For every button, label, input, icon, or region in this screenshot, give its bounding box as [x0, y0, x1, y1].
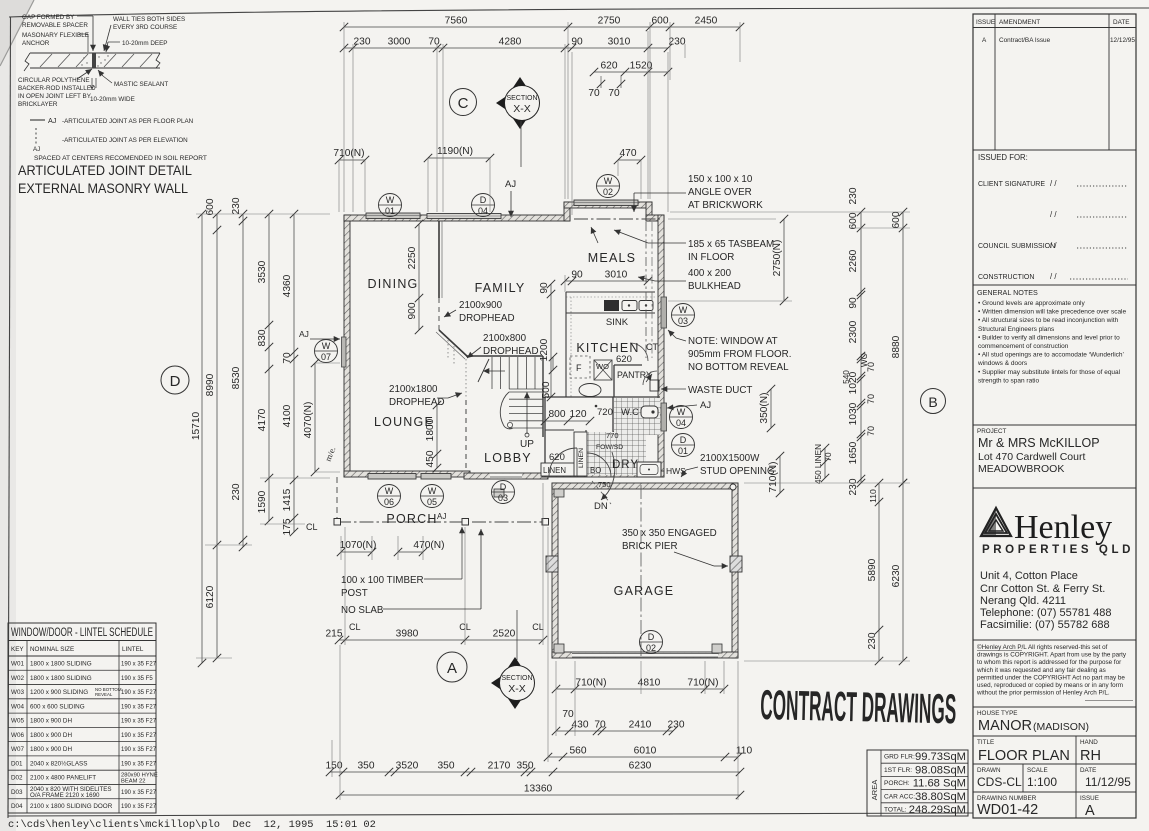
svg-text:3010: 3010 — [605, 270, 628, 281]
svg-text:12/12/95: 12/12/95 — [1110, 37, 1135, 44]
window W01 — [366, 213, 420, 219]
svg-text:2100 x 4800 PANELIFT: 2100 x 4800 PANELIFT — [30, 775, 96, 782]
id circle W01 — [379, 194, 402, 217]
svg-text:/ /: / / — [1050, 210, 1057, 219]
svg-text:1800: 1800 — [425, 418, 436, 441]
lobby entry door arc — [549, 448, 577, 476]
svg-text:05: 05 — [427, 497, 437, 507]
svg-text:DROPHEAD: DROPHEAD — [483, 346, 539, 357]
svg-text:POST: POST — [341, 588, 368, 599]
svg-text:2410: 2410 — [629, 720, 652, 731]
svg-text:3520: 3520 — [396, 761, 419, 772]
fridge F — [570, 356, 590, 378]
AJ marker left — [299, 329, 340, 342]
exterior wall bottom (lounge/lobby/laundry) — [344, 471, 664, 479]
note no slab — [341, 529, 484, 616]
svg-text:120: 120 — [570, 409, 587, 420]
exterior wall top — [344, 215, 570, 221]
svg-text:LOBBY: LOBBY — [484, 451, 532, 465]
svg-text:MASONARY FLEXIBLE: MASONARY FLEXIBLE — [22, 32, 89, 39]
svg-text:HOUSE TYPE: HOUSE TYPE — [977, 710, 1017, 717]
dim chain right 2750(N) — [772, 215, 788, 305]
top extension lines — [344, 22, 740, 215]
room label GARAGE — [614, 584, 675, 598]
svg-text:2100x800: 2100x800 — [483, 333, 527, 344]
svg-text:/ /: / / — [1050, 241, 1057, 250]
svg-text:IN FLOOR: IN FLOOR — [688, 252, 734, 263]
project section — [973, 425, 1136, 475]
svg-text:07: 07 — [321, 352, 331, 362]
svg-text:W07: W07 — [11, 746, 24, 753]
room label DINING — [368, 277, 419, 291]
svg-text:70: 70 — [588, 88, 600, 99]
svg-text:175: 175 — [282, 518, 293, 535]
exterior wall left — [344, 215, 350, 477]
svg-text:2260: 2260 — [848, 249, 859, 272]
kitchen/wc walls — [545, 397, 660, 477]
grid circle A — [437, 652, 467, 682]
svg-text:600: 600 — [205, 198, 216, 215]
svg-text:450: 450 — [425, 450, 436, 467]
svg-text:(MADISON): (MADISON) — [1033, 721, 1089, 733]
svg-text:750: 750 — [598, 480, 611, 489]
svg-text:2450: 2450 — [695, 16, 718, 27]
svg-text:used, reproduced or copied: used, reproduced or copied by means or i… — [977, 682, 1123, 689]
svg-text:720: 720 — [597, 407, 613, 418]
svg-text:commencement of construction: commencement of construction — [978, 343, 1069, 350]
svg-text:4280: 4280 — [499, 37, 522, 48]
henley logo — [973, 488, 1136, 556]
svg-text:6010: 6010 — [634, 746, 657, 757]
svg-text:98.08SqM: 98.08SqM — [915, 764, 966, 776]
room label LOUNGE — [374, 415, 434, 429]
svg-text:DRAWING NUMBER: DRAWING NUMBER — [977, 795, 1037, 802]
label W.C — [597, 407, 639, 418]
svg-text:A: A — [1085, 803, 1095, 819]
window W07 — [342, 337, 347, 367]
svg-text:2040 x 820½GLASS: 2040 x 820½GLASS — [30, 759, 87, 767]
svg-text:03: 03 — [498, 493, 508, 503]
svg-text:HAND: HAND — [1080, 739, 1098, 746]
svg-text:230: 230 — [668, 720, 685, 731]
note timber post — [341, 527, 465, 599]
svg-text:DROPHEAD: DROPHEAD — [459, 313, 515, 324]
svg-text:LINEN: LINEN — [578, 448, 585, 468]
svg-text:90: 90 — [848, 297, 859, 309]
svg-text:900: 900 — [407, 302, 418, 319]
svg-text:W: W — [677, 407, 686, 417]
kitchen bench — [566, 292, 655, 397]
svg-text:10-20mm DEEP: 10-20mm DEEP — [122, 40, 168, 47]
svg-text:Mr & MRS McKILLOP: Mr & MRS McKILLOP — [978, 436, 1100, 450]
dim 470 top-centre — [614, 148, 645, 199]
svg-text:190 x 35 F27: 190 x 35 F27 — [121, 690, 157, 696]
svg-text:Unit 4, Cotton Place: Unit 4, Cotton Place — [980, 570, 1078, 582]
id circle D04 — [472, 194, 495, 217]
svg-text:MASTIC SEALANT: MASTIC SEALANT — [114, 81, 168, 88]
svg-text:BRICKLAYER: BRICKLAYER — [18, 101, 58, 108]
vanity basin — [579, 384, 601, 408]
meals bay dash-dot line — [574, 218, 660, 220]
svg-text:02: 02 — [646, 643, 656, 653]
svg-text:IN OPEN JOINT LEFT BY: IN OPEN JOINT LEFT BY — [18, 93, 92, 100]
svg-text:190 x 35 F27: 190 x 35 F27 — [121, 662, 157, 668]
svg-text:70: 70 — [282, 352, 293, 364]
dim chain top row2 230/3000/70/4280/90/3010/230 — [340, 37, 686, 53]
svg-text:230: 230 — [231, 197, 242, 214]
svg-text:AJ: AJ — [299, 329, 309, 339]
svg-text:770: 770 — [606, 431, 619, 440]
window W02 — [574, 200, 638, 206]
svg-text:KEY: KEY — [11, 646, 24, 653]
svg-text:FOW/SD: FOW/SD — [596, 444, 623, 451]
svg-text:D: D — [500, 482, 507, 492]
svg-text:• Written dimension will take: • Written dimension will take precedence… — [978, 309, 1126, 316]
svg-text:90: 90 — [571, 37, 583, 48]
svg-text:AMENDMENT: AMENDMENT — [999, 19, 1040, 26]
note drophead 2100x900 — [444, 300, 515, 324]
id circle W05 — [421, 485, 444, 508]
svg-text:AJ: AJ — [437, 512, 446, 521]
svg-text:1800 x 1800 SLIDING: 1800 x 1800 SLIDING — [30, 675, 92, 682]
staircase — [478, 357, 543, 450]
svg-text:permitted under the COPYRIG: permitted under the COPYRIGHT Act no par… — [977, 674, 1125, 681]
svg-text:Nerang Qld. 4211: Nerang Qld. 4211 — [980, 595, 1066, 607]
svg-text:1070(N): 1070(N) — [340, 540, 377, 551]
dim chain left 230/8530/230 — [231, 197, 247, 551]
svg-text:W: W — [322, 341, 331, 351]
svg-text:Lot 470 Cardwell Court: Lot 470 Cardwell Court — [978, 451, 1085, 463]
svg-text:8530: 8530 — [231, 366, 242, 389]
svg-text:230: 230 — [354, 37, 371, 48]
svg-text:2100 x 1800 SLIDING DOOR: 2100 x 1800 SLIDING DOOR — [30, 803, 113, 810]
svg-text:600: 600 — [848, 212, 859, 229]
svg-text:4070(N): 4070(N) — [303, 402, 314, 439]
interior wall dining/family — [439, 221, 442, 332]
svg-text:W01: W01 — [11, 661, 24, 668]
svg-text:GENERAL NOTES: GENERAL NOTES — [977, 288, 1038, 297]
svg-text:6230: 6230 — [891, 564, 902, 587]
bulkhead dashed outline — [646, 222, 652, 358]
svg-text:DRAWN: DRAWN — [977, 767, 1001, 774]
svg-text:70: 70 — [866, 394, 876, 404]
left extension lines — [196, 214, 340, 658]
svg-text:PORCH: PORCH — [386, 512, 437, 526]
svg-text:DROPHEAD: DROPHEAD — [389, 397, 445, 408]
dim chain left 4360/70/4100/1415/175 — [282, 210, 298, 536]
svg-text:CONSTRUCTION: CONSTRUCTION — [978, 274, 1034, 281]
svg-text:EXTERNAL MASONRY WALL: EXTERNAL MASONRY WALL — [18, 181, 188, 196]
svg-text:01: 01 — [385, 206, 395, 216]
svg-text:600: 600 — [652, 16, 669, 27]
svg-text:190 x 35 F27: 190 x 35 F27 — [121, 704, 157, 710]
svg-text:DRY: DRY — [612, 459, 639, 471]
general notes section — [973, 285, 1136, 384]
svg-text:ARTICULATED JOINT DETAIL: ARTICULATED JOINT DETAIL — [18, 163, 192, 178]
svg-text:190 x 35 F27: 190 x 35 F27 — [121, 804, 157, 810]
dim chain bottom 215/3980/2520 — [326, 483, 548, 645]
svg-text:O/A FRAME 2120 x 1690: O/A FRAME 2120 x 1690 — [30, 792, 100, 799]
svg-text:5890: 5890 — [867, 558, 878, 581]
svg-text:W06: W06 — [11, 732, 24, 739]
svg-text:Structural Engineers plans: Structural Engineers plans — [978, 326, 1055, 333]
linen cupboard — [541, 431, 623, 489]
svg-text:Telephone: (07) 55781 488: Telephone: (07) 55781 488 — [980, 607, 1112, 619]
svg-text:350: 350 — [358, 761, 375, 772]
svg-text:620: 620 — [549, 452, 565, 463]
id circle W06 — [378, 485, 401, 508]
svg-text:1800 x 1800 SLIDING: 1800 x 1800 SLIDING — [30, 661, 92, 668]
grid circle D — [161, 366, 189, 394]
dim chain right 450 LINEN 70 — [814, 444, 833, 484]
svg-text:620: 620 — [601, 61, 618, 72]
sheet left border — [8, 17, 11, 818]
porch boundary dash-dot — [337, 477, 548, 522]
issue/amendment table — [973, 14, 1136, 150]
WO appliance — [594, 360, 612, 380]
svg-text:WO: WO — [596, 362, 609, 371]
svg-text:D03: D03 — [11, 789, 23, 796]
svg-text:230: 230 — [867, 632, 878, 649]
svg-text:ISSUE: ISSUE — [976, 19, 995, 26]
svg-text:15710: 15710 — [191, 412, 202, 441]
AJ marker right — [667, 400, 711, 411]
svg-text:03: 03 — [678, 316, 688, 326]
svg-text:230: 230 — [848, 187, 859, 204]
lounge dotted corner — [448, 340, 466, 398]
dim chain left 15710 — [191, 210, 206, 667]
svg-text:without the prior permissio: without the prior permission of Henley A… — [976, 690, 1110, 697]
AJ marker porch — [437, 512, 446, 521]
svg-text:CONTRACT DRAWINGS: CONTRACT DRAWINGS — [760, 681, 957, 732]
svg-text:10-20mm WIDE: 10-20mm WIDE — [90, 96, 135, 103]
sliding door D04 — [427, 214, 501, 219]
svg-text:FAMILY: FAMILY — [475, 281, 526, 295]
svg-text:38.80SqM: 38.80SqM — [915, 791, 966, 803]
label DRY — [612, 459, 639, 471]
svg-text:LINTEL: LINTEL — [122, 646, 144, 653]
svg-text:B: B — [928, 394, 937, 410]
svg-text:-ARTICULATED JOINT AS PER ELEV: -ARTICULATED JOINT AS PER ELEVATION — [62, 137, 188, 144]
svg-text:to whom this report is ad: to whom this report is addressed for the… — [977, 659, 1121, 666]
dim chain garage right 6230 — [891, 479, 907, 665]
svg-text:AJ: AJ — [33, 146, 40, 153]
svg-text:strength to span ratio: strength to span ratio — [978, 377, 1039, 384]
svg-text:DATE: DATE — [1080, 767, 1096, 774]
svg-text:70: 70 — [562, 709, 574, 720]
pantry room — [614, 354, 657, 397]
svg-text:100 x 100 TIMBER: 100 x 100 TIMBER — [341, 575, 424, 586]
lounge/lobby dashed wall — [465, 400, 467, 471]
svg-text:450 LINEN: 450 LINEN — [814, 444, 823, 484]
svg-text:D02: D02 — [11, 775, 23, 782]
svg-text:350 x 350 ENGAGED: 350 x 350 ENGAGED — [622, 528, 717, 539]
svg-text:04: 04 — [478, 206, 488, 216]
svg-text:ANGLE OVER: ANGLE OVER — [688, 187, 752, 198]
svg-text:185 x 65 TASBEAM: 185 x 65 TASBEAM — [688, 239, 774, 250]
svg-text:MANOR: MANOR — [978, 718, 1032, 734]
svg-text:1415: 1415 — [282, 488, 293, 511]
svg-text:2750: 2750 — [598, 16, 621, 27]
svg-text:02: 02 — [603, 187, 613, 197]
dim porch 1070(N)/470(N) — [337, 536, 445, 560]
meals bay walls — [564, 202, 664, 221]
note angle over brickwork — [631, 174, 763, 212]
svg-text:FLOOR PLAN: FLOOR PLAN — [978, 748, 1070, 764]
svg-text:1030: 1030 — [848, 402, 859, 425]
room label PORCH — [386, 512, 437, 526]
dim chain garage bottom 560/6010/110 — [544, 746, 753, 762]
svg-text:MEADOWBROOK: MEADOWBROOK — [978, 463, 1064, 475]
dim chain left 4070(N) — [303, 359, 319, 532]
dim 710(N) top-left — [333, 148, 369, 212]
dim chain garage bottom 430/70/2410/230 — [552, 720, 685, 736]
svg-text:1800 x 900 DH: 1800 x 900 DH — [30, 718, 72, 725]
svg-text:1200: 1200 — [539, 338, 550, 361]
garage door D02 opening — [572, 653, 718, 658]
svg-text:-ARTICULATED JOINT AS PER FLOO: -ARTICULATED JOINT AS PER FLOOR PLAN — [62, 118, 194, 125]
svg-text:350: 350 — [517, 761, 534, 772]
svg-text:D01: D01 — [11, 760, 23, 767]
svg-text:190 x 35 F27: 190 x 35 F27 — [121, 733, 157, 739]
id circle D02 — [640, 631, 663, 654]
svg-text:TOTAL:: TOTAL: — [884, 807, 907, 814]
svg-text:3980: 3980 — [396, 629, 419, 640]
svg-text:600: 600 — [891, 211, 902, 228]
dim stair 800/120 — [541, 409, 594, 425]
note window 905mm — [668, 330, 791, 373]
svg-text:150 x 100 x 10: 150 x 100 x 10 — [688, 174, 753, 185]
svg-text:2100x1800: 2100x1800 — [389, 384, 438, 395]
svg-text:620: 620 — [616, 354, 632, 365]
svg-text:PROPERTIES QLD: PROPERTIES QLD — [982, 544, 1134, 556]
svg-text:drawings is COPYRIGHT. Apart f: drawings is COPYRIGHT. Apart from use by… — [977, 652, 1127, 659]
svg-text:13360: 13360 — [524, 784, 553, 795]
drawn/scale/date cells — [973, 764, 1136, 792]
svg-text:190 x 35 F27: 190 x 35 F27 — [121, 790, 157, 796]
dim dining 2250/900 — [407, 220, 423, 334]
svg-text:350: 350 — [438, 761, 455, 772]
svg-text:NOTE: WINDOW AT: NOTE: WINDOW AT — [688, 336, 778, 347]
exterior wall right — [658, 215, 664, 477]
svg-text:470: 470 — [620, 148, 637, 159]
svg-text:500: 500 — [541, 381, 552, 398]
svg-text:GRD FLR:: GRD FLR: — [884, 754, 915, 761]
note stud opening — [681, 453, 775, 477]
svg-text:4360: 4360 — [282, 274, 293, 297]
svg-text:C: C — [458, 95, 469, 112]
svg-text:600 x 600 SLIDING: 600 x 600 SLIDING — [30, 703, 85, 710]
svg-text:Henley: Henley — [1014, 509, 1112, 546]
svg-text:1800 x 900 DH: 1800 x 900 DH — [30, 732, 72, 739]
svg-text:830: 830 — [257, 329, 268, 346]
svg-text:AJ: AJ — [505, 179, 516, 190]
svg-text:D: D — [170, 373, 181, 390]
svg-text:TITLE: TITLE — [977, 739, 994, 746]
svg-text:110: 110 — [868, 489, 878, 503]
svg-text:11.68 SqM: 11.68 SqM — [913, 778, 966, 790]
svg-text:• Builder to verify all dimens: • Builder to verify all dimensions and l… — [978, 334, 1120, 341]
room label MEALS — [588, 251, 636, 265]
dim chain left 3530/830/4170/1590 — [257, 210, 273, 525]
svg-text:800: 800 — [549, 409, 566, 420]
svg-text:BRICK PIER: BRICK PIER — [622, 541, 678, 552]
svg-text:SINK: SINK — [606, 317, 629, 328]
svg-text:70: 70 — [594, 720, 606, 731]
svg-text:W: W — [385, 486, 394, 496]
svg-text:X-X: X-X — [508, 683, 526, 695]
dim stair 500 — [541, 353, 557, 399]
garage engaged piers — [494, 484, 742, 653]
svg-text:ANCHOR: ANCHOR — [22, 40, 50, 47]
svg-text:190 x 35 F27: 190 x 35 F27 — [121, 719, 157, 725]
svg-text:AJ: AJ — [700, 400, 711, 411]
svg-text:REVEAL: REVEAL — [95, 692, 113, 697]
dim chain right 710(N) — [768, 452, 784, 497]
bottom extension lines — [332, 527, 738, 800]
entry door D03 opening — [490, 474, 522, 479]
svg-text:190 x 35 F27: 190 x 35 F27 — [121, 747, 157, 753]
svg-text:COUNCIL SUBMISSION: COUNCIL SUBMISSION — [978, 243, 1055, 250]
svg-text:windows & doors: windows & doors — [977, 360, 1028, 367]
dim kitchen 3010/90 — [561, 270, 652, 293]
svg-text:WALL TIES BOTH SIDES: WALL TIES BOTH SIDES — [113, 16, 185, 23]
svg-text:CL: CL — [349, 622, 361, 632]
svg-text:2250: 2250 — [407, 246, 418, 269]
svg-text:ISSUED FOR:: ISSUED FOR: — [978, 153, 1028, 162]
svg-text:EVERY 3RD COURSE: EVERY 3RD COURSE — [113, 24, 177, 31]
window W04 — [661, 403, 667, 431]
svg-text:90: 90 — [539, 282, 550, 294]
sink unit — [604, 300, 653, 311]
svg-text:540: 540 — [842, 370, 851, 384]
svg-text:710(N): 710(N) — [333, 148, 364, 159]
svg-text:470(N): 470(N) — [413, 540, 444, 551]
section marker X-X bottom — [491, 610, 535, 709]
svg-text:W05: W05 — [11, 718, 24, 725]
svg-text:1650: 1650 — [848, 441, 859, 464]
label HWS — [666, 466, 686, 476]
svg-text:190 x 35 F5: 190 x 35 F5 — [121, 676, 153, 682]
title block frame — [973, 14, 1136, 818]
svg-text:W: W — [386, 195, 395, 205]
svg-text:06: 06 — [384, 497, 394, 507]
AJ marker top — [505, 179, 516, 217]
svg-text:UP: UP — [520, 439, 534, 450]
svg-text:AJ: AJ — [48, 116, 57, 125]
svg-text:BO: BO — [590, 466, 601, 475]
svg-text:• Ground levels are approximat: • Ground levels are approximate only — [978, 300, 1085, 307]
svg-text:8990: 8990 — [205, 373, 216, 396]
dim chain bottom 150/350/3520/350/2170/350/6230 — [326, 761, 745, 777]
svg-text:8880: 8880 — [891, 335, 902, 358]
svg-text:2100X1500W: 2100X1500W — [700, 453, 760, 464]
svg-text:PROJECT: PROJECT — [977, 428, 1007, 435]
svg-text:AREA: AREA — [870, 780, 879, 800]
svg-text:X-X: X-X — [513, 103, 531, 115]
window W06 — [368, 474, 416, 480]
svg-text:905mm FROM FLOOR.: 905mm FROM FLOOR. — [688, 349, 791, 360]
garage walls — [552, 483, 738, 658]
garage centre dash-dot — [640, 485, 642, 656]
note drophead 2100x800 — [467, 333, 539, 358]
stair enclosure walls — [466, 356, 543, 437]
interior angled wall dining/lounge — [436, 330, 468, 359]
svg-text:BEAM 22: BEAM 22 — [121, 779, 146, 785]
dim chain top row3 620/1520 — [588, 61, 672, 100]
title cell — [973, 736, 1136, 764]
note drophead 2100x1800 — [389, 384, 462, 408]
